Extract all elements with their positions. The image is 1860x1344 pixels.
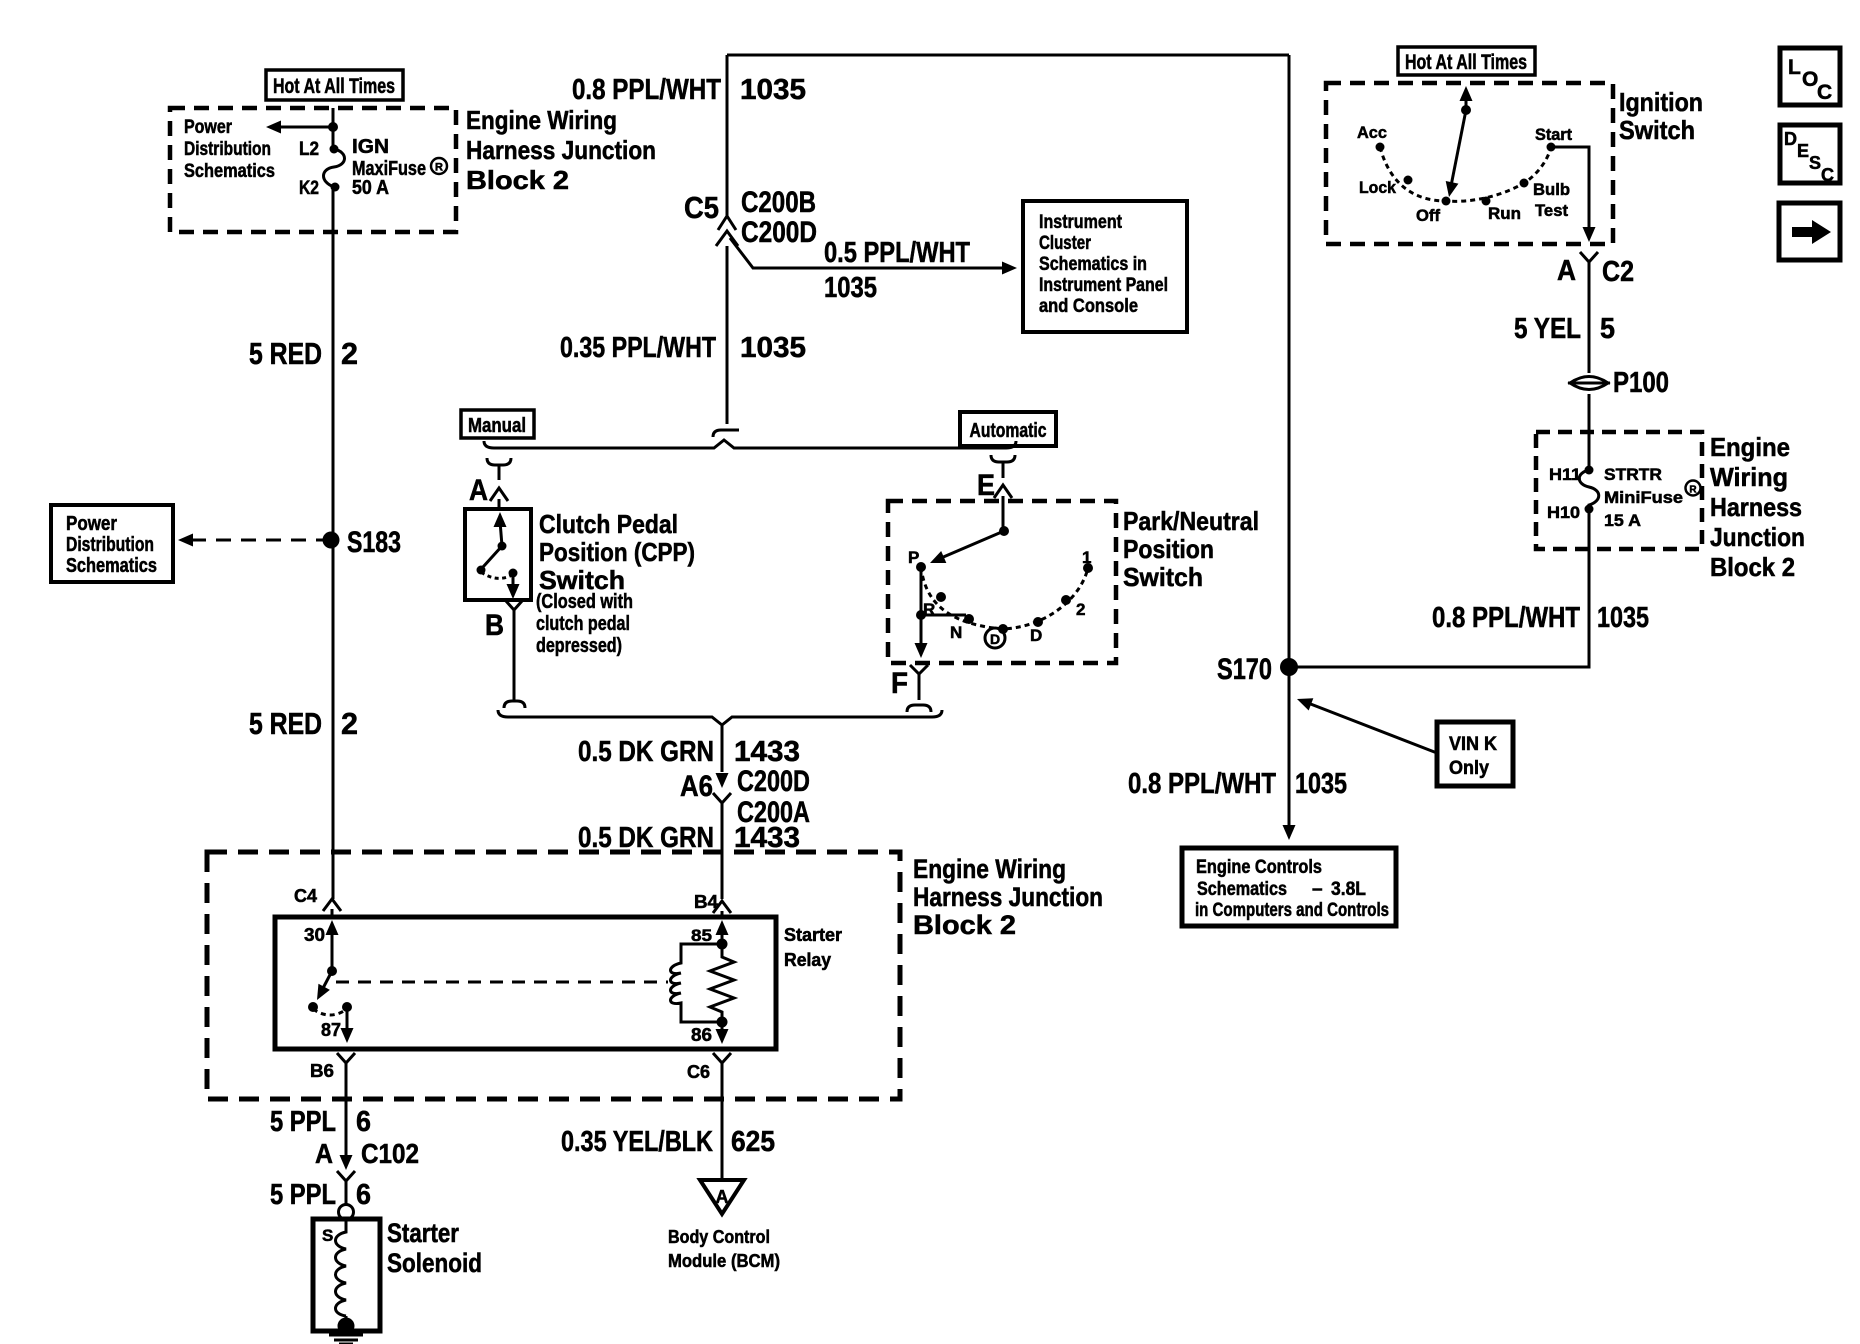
wire: 5 RED 2 left vertical (fuse to C4): [332, 188, 335, 899]
terminal: open circle at solenoid S terminal: [339, 1205, 354, 1220]
svg-text:Wiring: Wiring: [1710, 462, 1788, 492]
svg-text:Module (BCM): Module (BCM): [668, 1251, 780, 1271]
svg-text:S183: S183: [347, 526, 401, 559]
svg-text:0.8 PPL/WHT: 0.8 PPL/WHT: [1432, 602, 1580, 634]
label Park/Neutral Position Switch: [1123, 506, 1259, 592]
svg-text:Run: Run: [1488, 204, 1521, 223]
svg-text:C: C: [1817, 81, 1832, 104]
value label STRTR MiniFuse (R) 15 A: [1604, 465, 1701, 530]
svg-text:S170: S170: [1217, 653, 1272, 686]
svg-text:MiniFuse: MiniFuse: [1604, 488, 1683, 507]
arrow from VIN K Only to S170 wire: [1295, 693, 1437, 753]
svg-text:Relay: Relay: [784, 950, 831, 970]
svg-text:B: B: [485, 609, 504, 642]
svg-text:Solenoid: Solenoid: [387, 1248, 482, 1278]
wire: middle vertical top segment (circuit 1035): [726, 55, 729, 216]
svg-text:Only: Only: [1449, 758, 1489, 779]
svg-text:625: 625: [731, 1126, 775, 1158]
relay resistor (parallel with coil): [710, 944, 734, 1022]
reference box VIN K Only: [1437, 722, 1513, 786]
relay coil (inductor, 85-86): [671, 944, 723, 1022]
svg-text:D: D: [1030, 626, 1042, 645]
svg-text:0.8 PPL/WHT: 0.8 PPL/WHT: [572, 74, 721, 106]
fuse: STRTR MiniFuse 15 A: [1579, 466, 1599, 514]
svg-text:Switch: Switch: [1123, 562, 1203, 592]
svg-text:Engine Wiring: Engine Wiring: [913, 854, 1066, 884]
label Ignition Switch: [1619, 87, 1703, 145]
svg-text:Position (CPP): Position (CPP): [539, 537, 695, 567]
svg-text:Hot At All Times: Hot At All Times: [273, 75, 395, 98]
svg-text:R: R: [435, 162, 443, 174]
connector B4 (relay pin 85 feed): [694, 892, 731, 917]
svg-text:Off: Off: [1416, 206, 1440, 225]
wire: S170 down to Engine Controls (0.8 PPL/WHT 1035): [1283, 667, 1296, 840]
svg-text:IGN: IGN: [352, 136, 389, 158]
svg-text:VIN K: VIN K: [1449, 734, 1497, 755]
svg-text:F: F: [891, 667, 908, 700]
reference box Instrument Cluster Schematics in Instrument Panel and Console: [1023, 201, 1187, 332]
svg-text:Test: Test: [1535, 201, 1568, 220]
svg-text:–: –: [1312, 879, 1323, 900]
svg-text:Engine Wiring: Engine Wiring: [466, 105, 617, 135]
off-page triangle A to Body Control Module: [700, 1180, 744, 1214]
connector A (CPP switch): [469, 458, 511, 509]
wire label 5 YEL 5: [1514, 313, 1615, 345]
svg-text:Harness Junction: Harness Junction: [466, 135, 656, 165]
svg-text:Position: Position: [1123, 534, 1214, 564]
svg-text:(Closed with: (Closed with: [536, 591, 633, 613]
dashed box: Engine Wiring Harness Junction Block 2 (top left): [170, 108, 456, 232]
svg-text:Start: Start: [1535, 125, 1572, 144]
svg-text:Schematics: Schematics: [184, 161, 275, 182]
svg-text:Block 2: Block 2: [1710, 552, 1795, 582]
svg-text:H10: H10: [1547, 503, 1580, 522]
svg-text:85: 85: [691, 926, 712, 945]
svg-text:3.8L: 3.8L: [1331, 879, 1366, 900]
svg-text:Schematics: Schematics: [1197, 879, 1287, 900]
wire label 0.8 PPL/WHT 1035 (top middle): [572, 74, 806, 106]
svg-text:STRTR: STRTR: [1604, 465, 1662, 484]
svg-text:5 YEL: 5 YEL: [1514, 313, 1581, 345]
wire label 0.5 PPL/WHT 1035 (branch): [824, 237, 970, 304]
svg-text:E: E: [977, 469, 995, 502]
svg-text:1433: 1433: [734, 736, 800, 768]
svg-text:C: C: [1821, 165, 1834, 185]
svg-text:A: A: [315, 1138, 333, 1169]
svg-text:0.35 YEL/BLK: 0.35 YEL/BLK: [561, 1126, 713, 1158]
wire label 0.35 YEL/BLK 625: [561, 1126, 775, 1158]
PN switch position labels P R N D(circled) D 2 1: [908, 548, 1091, 648]
ignition switch position arc (dashed) with dots: [1376, 143, 1556, 206]
relay switch arm (30 to 87): [308, 971, 352, 1015]
wire: branch arrow to Instrument Cluster Schematics: [730, 238, 1017, 275]
svg-text:R: R: [1689, 485, 1697, 496]
svg-text:1: 1: [1082, 548, 1091, 567]
option box Manual: [461, 410, 534, 438]
wire label 0.5 DK GRN 1433 (lower): [578, 822, 800, 854]
svg-text:Starter: Starter: [784, 925, 842, 945]
svg-text:P: P: [908, 548, 919, 567]
wire label 5 PPL 6 (lower): [270, 1179, 371, 1211]
fuse: IGN MaxiFuse 50 A: [324, 145, 345, 192]
dashed wire to Power Distribution Schematics with arrow: [178, 534, 331, 547]
CPP switch contacts and arm: [477, 512, 520, 599]
svg-text:Power: Power: [66, 513, 117, 535]
arrow to Power Distribution Schematics (left arrow): [266, 121, 338, 134]
power label box "Hot At All Times" (top left): [266, 70, 403, 100]
svg-text:Engine Controls: Engine Controls: [1196, 857, 1322, 878]
svg-text:C4: C4: [294, 886, 317, 906]
ignition switch rotor arm: [1443, 86, 1473, 198]
svg-text:50 A: 50 A: [352, 177, 389, 199]
svg-text:L: L: [1788, 56, 1801, 79]
value label IGN MaxiFuse (R) 50 A: [352, 136, 447, 199]
svg-text:0.5 DK GRN: 0.5 DK GRN: [578, 822, 714, 854]
relay pin 85 entry: [691, 920, 729, 950]
svg-text:D: D: [990, 631, 1000, 647]
svg-text:N: N: [950, 623, 962, 642]
svg-text:1433: 1433: [734, 822, 800, 854]
dashed box: Engine Wiring Harness Junction Block 2 (MiniFuse): [1536, 432, 1702, 549]
svg-text:C200D: C200D: [741, 216, 817, 249]
power label box "Hot At All Times" (ignition): [1398, 47, 1535, 75]
svg-text:1035: 1035: [1295, 768, 1347, 800]
wire: CPP B to spread line: [513, 618, 516, 701]
svg-text:6: 6: [356, 1106, 371, 1138]
svg-text:Hot At All Times: Hot At All Times: [1405, 51, 1527, 74]
label Starter Relay: [784, 925, 842, 970]
svg-text:15 A: 15 A: [1604, 511, 1641, 530]
svg-text:Junction: Junction: [1710, 522, 1805, 552]
svg-text:B6: B6: [310, 1061, 334, 1081]
connector C4 (relay pin 30 feed): [294, 886, 341, 917]
node S170 (splice): [1217, 653, 1298, 686]
svg-text:Harness Junction: Harness Junction: [913, 882, 1103, 912]
svg-text:5 PPL: 5 PPL: [270, 1106, 336, 1138]
connector F (Park/Neutral switch): [891, 665, 931, 712]
svg-text:6: 6: [356, 1179, 371, 1211]
svg-text:1035: 1035: [740, 74, 806, 106]
svg-text:C6: C6: [687, 1062, 710, 1082]
wire: Start contact to C2: [1551, 147, 1596, 242]
reference box Engine Controls Schematics - 3.8L in Computers and Controls: [1182, 848, 1396, 926]
svg-text:S: S: [1809, 153, 1821, 173]
wire: combined output down from spread line: [721, 725, 724, 772]
wire label 5 PPL 6 (upper): [270, 1106, 371, 1138]
connector A6 C200D/C200A in-line: [680, 765, 810, 899]
svg-text:depressed): depressed): [536, 635, 622, 657]
connector B (CPP switch): [485, 601, 522, 642]
svg-text:0.8 PPL/WHT: 0.8 PPL/WHT: [1128, 768, 1276, 800]
svg-text:C200D: C200D: [737, 765, 810, 798]
svg-text:Body Control: Body Control: [668, 1227, 770, 1247]
component: Starter Relay box: [275, 917, 776, 1049]
svg-text:Distribution: Distribution: [184, 139, 271, 160]
node S183 (splice): [323, 526, 402, 559]
svg-text:5 RED: 5 RED: [249, 336, 322, 371]
svg-text:5 RED: 5 RED: [249, 706, 322, 741]
svg-text:Instrument: Instrument: [1039, 212, 1123, 233]
svg-text:K2: K2: [299, 178, 319, 199]
svg-text:Cluster: Cluster: [1039, 233, 1091, 254]
PN switch position dots and dashed arc: [916, 562, 1093, 634]
relay pin 30 and switch contact: [304, 920, 339, 976]
svg-text:Schematics: Schematics: [66, 555, 157, 577]
svg-text:A: A: [716, 1187, 729, 1207]
svg-text:L2: L2: [299, 139, 319, 160]
svg-text:clutch pedal: clutch pedal: [536, 613, 630, 635]
connector E (Park/Neutral switch): [977, 455, 1015, 502]
svg-text:Manual: Manual: [468, 415, 526, 437]
svg-text:H11: H11: [1549, 465, 1581, 484]
svg-text:E: E: [1797, 141, 1809, 161]
svg-text:Acc: Acc: [1357, 123, 1387, 142]
svg-text:Block 2: Block 2: [466, 165, 569, 195]
svg-text:C2: C2: [1602, 256, 1634, 288]
svg-text:B4: B4: [694, 892, 718, 912]
connector C102 pin A: [315, 1138, 419, 1205]
svg-text:Distribution: Distribution: [66, 534, 154, 556]
component: Park/Neutral Position Switch dashed box: [888, 501, 1116, 663]
connector C6: [687, 1053, 731, 1099]
svg-text:2: 2: [341, 336, 358, 371]
relay pin 87 output: [321, 1007, 354, 1043]
wire: splice bar end of 0.35 PPL/WHT wire: [713, 430, 739, 437]
svg-text:1035: 1035: [824, 272, 877, 304]
svg-text:86: 86: [691, 1025, 712, 1045]
svg-text:0.5 DK GRN: 0.5 DK GRN: [578, 736, 714, 768]
wire label 5 RED 2 (upper): [249, 336, 358, 371]
component: Ignition Switch dashed box: [1326, 83, 1613, 244]
component: Starter Solenoid box: [313, 1219, 380, 1331]
wire: 5 YEL 5 (C2 to P100): [1588, 270, 1591, 373]
label Power Distribution Schematics (inside top-left dashed box): [184, 117, 275, 182]
dashed box: Engine Wiring Harness Junction Block 2 (bottom): [207, 852, 900, 1099]
corner icon box LOC: [1780, 48, 1840, 105]
wire: spread line joining Manual and Automatic outputs: [498, 710, 942, 725]
svg-text:Schematics in: Schematics in: [1039, 254, 1147, 275]
wire label 0.8 PPL/WHT 1035 (right): [1432, 602, 1649, 634]
ignition position labels Acc Lock Off Run Bulb Test Start: [1357, 123, 1572, 225]
wire label 0.5 DK GRN 1433 (upper): [578, 736, 800, 768]
svg-text:0.35 PPL/WHT: 0.35 PPL/WHT: [560, 332, 716, 364]
svg-text:1035: 1035: [740, 332, 806, 364]
label Engine Wiring Harness Junction Block 2 (right): [1710, 432, 1805, 582]
svg-text:Lock: Lock: [1359, 178, 1396, 197]
svg-text:and Console: and Console: [1039, 296, 1138, 317]
svg-text:5: 5: [1600, 313, 1615, 345]
grommet P100: [1568, 367, 1669, 399]
wire: P100 to STRTR MiniFuse: [1588, 394, 1591, 470]
svg-text:Automatic: Automatic: [970, 420, 1047, 442]
svg-text:A: A: [469, 474, 488, 507]
wire: feed into IGN MaxiFuse from top: [332, 108, 335, 150]
wire: top horizontal run to right side: [727, 54, 1289, 57]
connector C5 (C200B/C200D in-line): [684, 186, 817, 249]
svg-text:Clutch Pedal: Clutch Pedal: [539, 509, 678, 539]
reference box Power Distribution Schematics (left): [51, 505, 173, 582]
relay mechanical link (dashed): [336, 981, 668, 984]
label Starter Solenoid: [387, 1218, 482, 1278]
wire: B6 to C102 (5 PPL): [345, 1099, 348, 1156]
svg-text:2: 2: [341, 706, 358, 741]
svg-text:Starter: Starter: [387, 1218, 459, 1248]
PN switch wiper arm from E: [927, 501, 1009, 569]
relay pin 86 output: [691, 1017, 729, 1046]
svg-text:87: 87: [321, 1020, 341, 1040]
svg-text:in Computers and Controls: in Computers and Controls: [1195, 900, 1389, 921]
starter solenoid coil winding: [336, 1218, 347, 1316]
svg-text:A6: A6: [680, 770, 713, 803]
svg-text:2: 2: [1076, 600, 1085, 619]
svg-text:C5: C5: [684, 190, 719, 225]
svg-text:Switch: Switch: [1619, 115, 1695, 145]
wire: MiniFuse to S170 (0.8 PPL/WHT): [1289, 509, 1589, 667]
svg-text:0.5 PPL/WHT: 0.5 PPL/WHT: [824, 237, 970, 269]
component: Clutch Pedal Position (CPP) Switch box: [465, 509, 531, 600]
svg-text:5 PPL: 5 PPL: [270, 1179, 336, 1211]
corner icon box with right arrow: [1779, 203, 1840, 260]
svg-text:A: A: [1557, 255, 1576, 287]
wire label 0.35 PPL/WHT 1035: [560, 332, 806, 364]
svg-text:O: O: [1802, 68, 1818, 91]
wire: spread line to Manual / Automatic branches: [484, 440, 1016, 448]
wire: C6 to BCM (0.35 YEL/BLK 625): [721, 1099, 724, 1180]
svg-text:30: 30: [304, 925, 325, 945]
svg-text:Block 2: Block 2: [913, 910, 1016, 940]
option box Automatic: [960, 412, 1056, 446]
svg-text:D: D: [1784, 129, 1797, 149]
svg-text:Engine: Engine: [1710, 432, 1790, 462]
connector C2 pin A: [1557, 252, 1634, 288]
label Engine Wiring Harness Junction Block 2 (top left): [466, 105, 656, 195]
label Engine Wiring Harness Junction Block 2 (bottom): [913, 854, 1103, 940]
connector B6: [310, 1053, 355, 1099]
svg-text:Harness: Harness: [1710, 492, 1802, 522]
wire label 0.8 PPL/WHT 1035 (lower): [1128, 768, 1347, 800]
wire label 5 RED 2 (lower): [249, 706, 358, 741]
svg-text:C102: C102: [361, 1138, 419, 1169]
wire: middle vertical (0.35 PPL/WHT) below C5: [726, 246, 729, 424]
PN switch P-N link and output to F: [915, 567, 967, 658]
svg-text:Instrument Panel: Instrument Panel: [1039, 275, 1168, 296]
label Clutch Pedal Position (CPP) Switch: [536, 509, 695, 657]
svg-text:Ignition: Ignition: [1619, 87, 1703, 117]
svg-text:1035: 1035: [1597, 602, 1649, 634]
svg-text:Park/Neutral: Park/Neutral: [1123, 506, 1259, 536]
corner icon box DESC: [1780, 125, 1840, 185]
ground at starter solenoid: [329, 1316, 363, 1344]
svg-text:Bulb: Bulb: [1533, 180, 1570, 199]
wire: splice bar at bottom of B wire: [504, 701, 525, 708]
wire: right vertical 1035 down to S170: [1288, 55, 1291, 667]
svg-text:S: S: [322, 1226, 333, 1245]
svg-text:P100: P100: [1613, 367, 1669, 399]
svg-text:C200B: C200B: [741, 186, 816, 219]
svg-text:Power: Power: [184, 117, 232, 138]
label Body Control Module (BCM): [668, 1227, 780, 1271]
